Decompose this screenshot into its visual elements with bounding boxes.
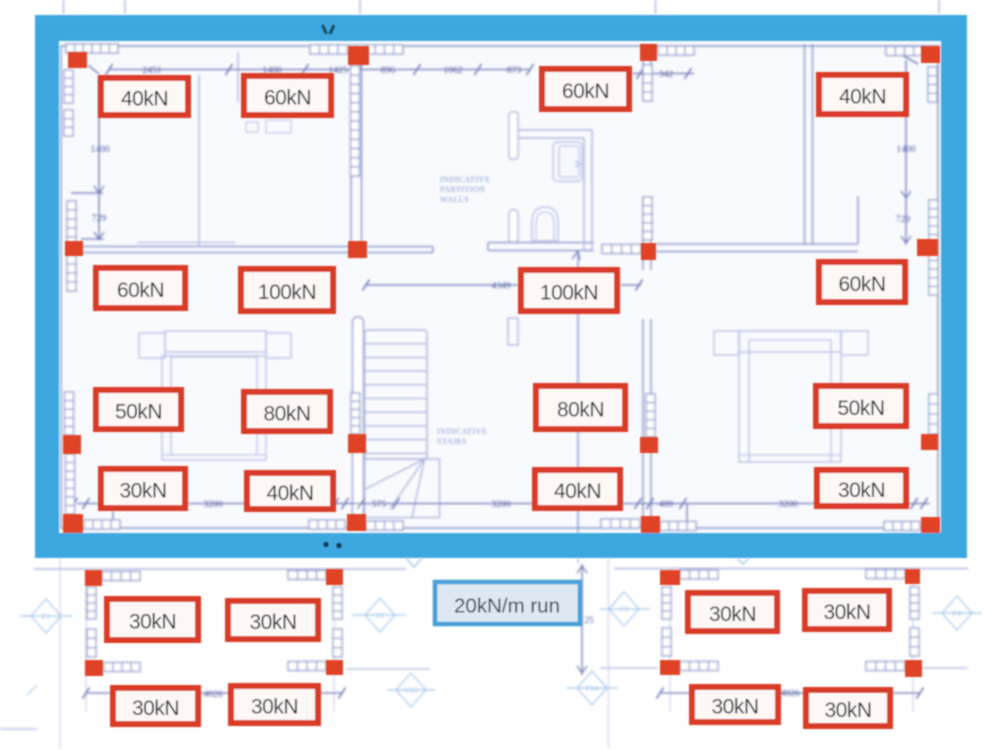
svg-text:4026: 4026	[781, 689, 800, 699]
svg-text:1400: 1400	[896, 144, 915, 155]
svg-text:30kN: 30kN	[711, 696, 758, 719]
svg-text:1062: 1062	[443, 65, 462, 76]
svg-text:80kN: 80kN	[263, 403, 310, 426]
svg-text:50kN: 50kN	[115, 401, 162, 424]
svg-text:30kN: 30kN	[251, 696, 298, 719]
svg-text:INDICATIVE: INDICATIVE	[440, 175, 490, 184]
svg-text:50kN: 50kN	[837, 397, 884, 420]
svg-text:25: 25	[585, 615, 595, 625]
svg-text:3200: 3200	[778, 499, 797, 510]
svg-text:30kN: 30kN	[129, 611, 176, 634]
svg-text:342: 342	[659, 69, 674, 80]
svg-text:100kN: 100kN	[540, 282, 598, 305]
svg-text:1400: 1400	[90, 144, 109, 155]
svg-text:40kN: 40kN	[266, 482, 313, 505]
svg-text:60kN: 60kN	[117, 279, 164, 302]
svg-text:PARTITION: PARTITION	[440, 185, 486, 194]
svg-text:WALLS: WALLS	[440, 195, 469, 204]
svg-text:INDICATIVE: INDICATIVE	[437, 427, 487, 436]
svg-text:30kN: 30kN	[249, 611, 296, 634]
svg-text:729: 729	[92, 213, 107, 224]
svg-text:896: 896	[381, 65, 396, 76]
svg-text:729: 729	[896, 214, 911, 225]
svg-text:60kN: 60kN	[838, 273, 885, 296]
svg-text:30kN: 30kN	[119, 480, 166, 503]
svg-text:60kN: 60kN	[264, 87, 311, 110]
svg-text:100kN: 100kN	[258, 281, 316, 304]
svg-text:489: 489	[659, 499, 674, 510]
svg-text:30kN: 30kN	[823, 601, 870, 624]
svg-text:873: 873	[507, 65, 522, 76]
svg-text:80kN: 80kN	[557, 399, 604, 422]
svg-text:STAIRS: STAIRS	[437, 437, 467, 446]
svg-text:40kN: 40kN	[839, 86, 886, 109]
svg-text:60kN: 60kN	[562, 80, 609, 103]
svg-text:4349: 4349	[491, 281, 510, 292]
svg-text:2451: 2451	[142, 65, 161, 76]
svg-text:3200: 3200	[491, 499, 510, 510]
svg-text:30kN: 30kN	[824, 699, 871, 722]
svg-text:30kN: 30kN	[709, 603, 756, 626]
svg-text:30kN: 30kN	[132, 697, 179, 720]
svg-text:3200: 3200	[203, 499, 222, 510]
svg-text:575: 575	[372, 499, 387, 510]
svg-text:40kN: 40kN	[121, 88, 168, 111]
svg-text:30kN: 30kN	[838, 479, 885, 502]
svg-text:4026: 4026	[204, 690, 223, 700]
svg-text:20kN/m run: 20kN/m run	[454, 595, 560, 618]
svg-text:40kN: 40kN	[554, 480, 601, 503]
